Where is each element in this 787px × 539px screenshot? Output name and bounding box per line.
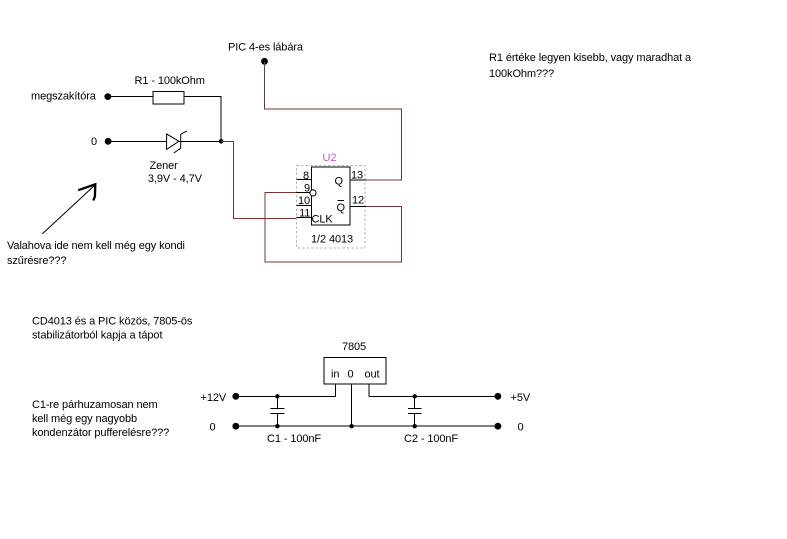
svg-text:kell még egy nagyobb: kell még egy nagyobb [32,413,137,425]
node 0 terminal dot [105,138,112,145]
svg-text:13: 13 [351,169,363,181]
flip-flop U2 body [311,167,350,225]
junction dot R1/zener [219,139,224,144]
wire red: junction to U2 pin 11 (CLK) [221,141,297,218]
capacitor C1 [271,396,285,426]
wire: +5V rail [369,395,498,397]
wire: 0 dot to junction through zener [108,140,221,142]
svg-text:C2 - 100nF: C2 - 100nF [404,433,458,445]
junction dot C2 top [413,394,417,398]
wire: +12V rail [236,395,336,397]
svg-text:in: in [331,369,339,381]
7805 in leg [335,384,337,396]
svg-text:U2: U2 [323,152,337,164]
svg-text:0: 0 [518,422,524,434]
pin 10 stub [297,204,312,206]
svg-text:3,9V - 4,7V: 3,9V - 4,7V [148,173,203,185]
svg-text:kondenzátor pufferelésre???: kondenzátor pufferelésre??? [32,427,169,439]
wire red: Q-bar feedback to pin 9 [265,193,402,262]
svg-text:9: 9 [304,183,310,195]
svg-text:CD4013 és a PIC közös, 7805-ös: CD4013 és a PIC közös, 7805-ös [32,315,193,327]
pin 9 bubble [310,190,316,196]
junction dot C2 bottom [413,424,417,428]
svg-text:out: out [365,369,380,381]
zener diode D1 [167,131,187,153]
node megszakitora terminal dot [104,93,111,100]
svg-text:7805: 7805 [342,341,366,353]
svg-text:R1 - 100kOhm: R1 - 100kOhm [135,75,205,87]
regulator 7805 body [324,357,386,384]
node +12V terminal dot [232,393,239,400]
svg-text:10: 10 [298,195,310,207]
junction dot C1 bottom [275,424,279,428]
svg-text:R1 értéke legyen kisebb, vagy: R1 értéke legyen kisebb, vagy maradhat a [489,52,692,64]
svg-text:0: 0 [348,369,354,381]
junction dot gnd leg bottom [349,424,353,428]
svg-text:8: 8 [303,170,309,182]
svg-text:Zener: Zener [150,160,179,172]
wire: 0V rail [236,425,498,427]
pin 12 stub [350,205,366,207]
node 0 right terminal dot [495,423,502,430]
svg-text:megszakítóra: megszakítóra [31,91,97,103]
pin 8 stub [297,179,312,181]
pin 11 stub [297,217,312,219]
node +5V terminal dot [495,393,502,400]
7805 out leg [368,384,370,396]
node PIC terminal dot [261,58,268,65]
svg-text:CLK: CLK [312,214,334,226]
svg-text:1/2 4013: 1/2 4013 [311,234,353,246]
svg-text:Q: Q [337,202,346,214]
svg-text:PIC 4-es lábára: PIC 4-es lábára [228,42,304,54]
svg-text:C1 - 100nF: C1 - 100nF [267,433,321,445]
svg-text:+12V: +12V [201,392,227,404]
wire red: PIC pin to U2 pin 13 [265,61,402,180]
svg-text:12: 12 [352,194,364,206]
svg-text:Q: Q [335,176,344,188]
svg-text:0: 0 [210,422,216,434]
pin 9 stub [297,192,312,194]
svg-text:+5V: +5V [511,392,531,404]
U2 dashed selection box [297,166,366,249]
svg-text:stabilizátorból kapja a tápot: stabilizátorból kapja a tápot [32,330,162,342]
pin 13 stub [350,179,366,181]
wire: megszakitora dot to R1 [108,96,153,98]
Q-bar overbar [338,199,345,201]
svg-text:100kOhm???: 100kOhm??? [489,68,554,80]
svg-text:0: 0 [91,136,97,148]
7805 gnd leg [351,384,353,426]
node 0 left terminal dot [232,423,239,430]
wire: R1 right to corner down to zener junction [184,97,221,142]
annotation arrow [42,184,95,234]
svg-text:Valahova ide nem kell még egy: Valahova ide nem kell még egy kondi [7,240,185,252]
svg-text:C1-re párhuzamosan nem: C1-re párhuzamosan nem [32,399,158,411]
capacitor C2 [408,396,422,426]
svg-text:szűrésre???: szűrésre??? [7,255,66,267]
svg-text:11: 11 [299,208,310,220]
junction dot C1 top [275,394,279,398]
resistor R1 body [153,92,184,104]
